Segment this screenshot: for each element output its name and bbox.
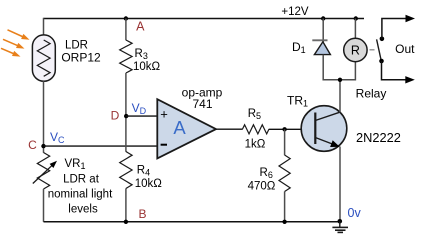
- wire: rail to relay coil: [354, 19, 356, 39]
- diode D1 cathode bar: [312, 39, 327, 41]
- arrowhead out bottom: [405, 76, 415, 83]
- svg-text:R: R: [351, 44, 360, 58]
- svg-text:C: C: [28, 138, 37, 152]
- arrowhead out top: [406, 15, 416, 22]
- resistor R3: [120, 40, 132, 73]
- wire: VR1 to bottom rail: [43, 189, 45, 222]
- svg-text:10kΩ: 10kΩ: [133, 61, 161, 73]
- node C: [41, 144, 45, 148]
- wire: node A to R3: [125, 19, 127, 41]
- wire: LDR to node C: [43, 81, 45, 153]
- wire: R4 to node B: [125, 189, 127, 222]
- switch bottom contact: [379, 59, 384, 64]
- svg-text:Out: Out: [395, 42, 415, 56]
- wire: collector up to junction: [339, 80, 341, 113]
- op-amp minus sign: [161, 144, 167, 146]
- wire: bottom contact to out arrow: [382, 61, 407, 80]
- svg-text:0v: 0v: [348, 206, 362, 220]
- wire: emitter down to ground: [339, 147, 341, 222]
- svg-text:741: 741: [192, 97, 212, 111]
- wire: node D to op-amp non-inverting input: [126, 115, 158, 117]
- svg-text:2N2222: 2N2222: [356, 130, 401, 145]
- light arrow 1: [8, 30, 30, 40]
- wire: R3 to node D: [125, 73, 127, 152]
- svg-text:+: +: [160, 107, 168, 122]
- wire: R6 to bottom rail: [284, 192, 286, 222]
- svg-text:levels: levels: [68, 204, 98, 216]
- node relay top rail: [354, 16, 358, 20]
- relay coil R: [344, 38, 367, 61]
- wire: bottom 0v rail: [44, 221, 340, 223]
- svg-text:A: A: [136, 20, 145, 34]
- LDR zigzag element: [37, 40, 50, 76]
- wire: junction to R6: [284, 129, 286, 155]
- node R6 bottom: [282, 220, 286, 224]
- wire: R5 to base junction: [269, 128, 316, 130]
- light arrow 3: [1, 48, 21, 56]
- LDR ORP12 body: [32, 35, 55, 81]
- resistor R4: [120, 152, 132, 189]
- node collector junction: [338, 78, 342, 82]
- wire: op-amp output to R5: [216, 128, 243, 130]
- switch top contact: [380, 37, 385, 42]
- switch blade: [377, 39, 382, 61]
- svg-text:Relay: Relay: [356, 86, 387, 100]
- VR1 arrow: [33, 165, 53, 183]
- resistor R5: [242, 125, 269, 134]
- node D: [124, 114, 128, 118]
- svg-text:nominal light: nominal light: [48, 189, 113, 201]
- transistor base bar: [314, 113, 316, 145]
- svg-text:1kΩ: 1kΩ: [245, 139, 266, 151]
- wire: +12V top rail: [44, 18, 365, 20]
- svg-text:ORP12: ORP12: [61, 51, 101, 65]
- svg-text:LDR at: LDR at: [63, 174, 100, 186]
- resistor R6: [279, 155, 290, 192]
- transistor collector diagonal: [315, 112, 340, 120]
- diode D1 triangle: [314, 42, 330, 55]
- node A: [124, 16, 128, 20]
- variable resistor VR1: [37, 153, 49, 190]
- svg-text:470Ω: 470Ω: [248, 181, 276, 193]
- transistor TR1 body: [301, 106, 347, 152]
- op-amp U1 741: [157, 99, 216, 158]
- ground symbol: [332, 221, 348, 232]
- wire: VC to op-amp inverting input: [44, 145, 159, 147]
- svg-text:LDR: LDR: [65, 39, 88, 51]
- ground node: [338, 219, 343, 224]
- svg-text:A: A: [173, 117, 186, 138]
- svg-text:B: B: [138, 207, 146, 221]
- svg-text:10kΩ: 10kΩ: [135, 178, 163, 190]
- node B: [124, 220, 128, 224]
- svg-text:D: D: [111, 108, 120, 122]
- junction node R5/R6: [282, 127, 286, 131]
- svg-text:+12V: +12V: [281, 6, 309, 18]
- wire: rail to D1: [322, 19, 324, 43]
- light arrow 2: [3, 39, 25, 48]
- node D1 top rail: [321, 16, 325, 20]
- emitter arrowhead: [330, 140, 340, 147]
- wire: top contact to out arrow: [382, 19, 407, 39]
- transistor emitter diagonal: [315, 138, 332, 145]
- wire: top rail to LDR: [43, 18, 45, 36]
- wire: D1 to collector junction: [323, 55, 355, 80]
- relay-switch link dash: [370, 49, 375, 51]
